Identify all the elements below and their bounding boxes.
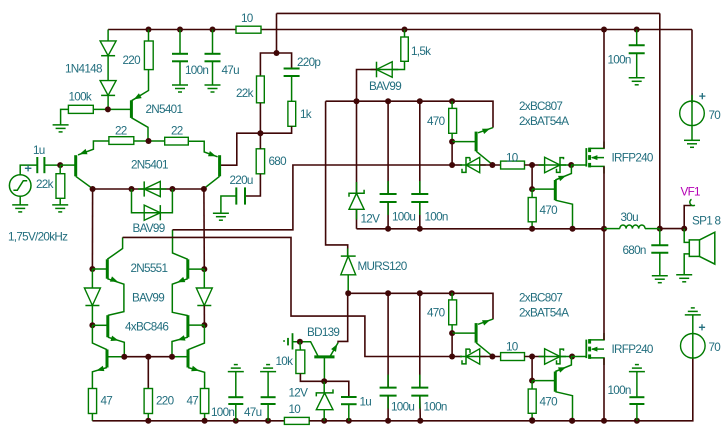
diode D1 1N4148 xyxy=(100,41,116,56)
svg-text:220: 220 xyxy=(156,395,175,408)
wire diode to Q8 node xyxy=(203,306,205,326)
wire 1u to 22k node xyxy=(44,164,60,166)
label 100n lower supply xyxy=(424,401,447,414)
label 30u xyxy=(621,211,639,224)
svg-text:BAV99: BAV99 xyxy=(369,80,401,93)
wire zener lower bottom lead xyxy=(323,410,325,421)
wire Q2 collector xyxy=(76,176,93,189)
svg-text:1k: 1k xyxy=(300,108,312,121)
label BAV99 center xyxy=(132,292,164,305)
capacitor C 100u lower xyxy=(380,388,397,396)
label 680 xyxy=(269,155,288,168)
capacitor C 100n bottom inverted ground xyxy=(228,365,244,372)
capacitor C 47u bottom inverted ground xyxy=(260,365,276,372)
node upper gate junction xyxy=(568,162,574,168)
svg-text:470: 470 xyxy=(427,307,446,320)
label 70 lower xyxy=(709,341,722,354)
ground under source xyxy=(12,205,28,212)
svg-text:10: 10 xyxy=(506,340,519,353)
node clamp diode left xyxy=(129,186,135,192)
svg-text:30u: 30u xyxy=(621,211,639,224)
svg-text:100u: 100u xyxy=(392,211,415,224)
label 470 lower b xyxy=(540,396,559,409)
label 2N5401 Q1 xyxy=(146,103,183,116)
wire zener lower top lead xyxy=(323,381,325,393)
resistor R 470 lower gate-emitter xyxy=(528,389,536,413)
wire upper diode to collector node xyxy=(480,164,501,166)
wire BC817 upper base xyxy=(532,188,555,190)
speaker SP1 xyxy=(689,232,715,264)
svg-text:100n: 100n xyxy=(185,64,208,77)
ground at 220u xyxy=(213,213,229,220)
polarity + at 1u xyxy=(25,165,32,171)
node rail 100n left xyxy=(233,418,239,424)
svg-text:70: 70 xyxy=(709,341,722,354)
wire lower base node to gate line xyxy=(451,333,453,356)
label 220p xyxy=(297,56,321,69)
svg-text:1N4148: 1N4148 xyxy=(65,63,102,76)
resistor R 100k xyxy=(68,105,93,113)
label 1u xyxy=(33,144,45,157)
svg-text:47u: 47u xyxy=(222,64,240,77)
transistor Q4 2N5551 base bar xyxy=(106,259,109,278)
wire lower mosfet gate lead xyxy=(571,356,586,358)
wire upper gate resistor right lead xyxy=(525,164,545,166)
label 1,75V/20kHz xyxy=(8,231,68,244)
wire Q2 emitter from 22 resistors xyxy=(78,141,109,155)
wire 100n upper top lead xyxy=(419,101,421,194)
wire 100n cap top lead xyxy=(179,30,181,54)
svg-text:47: 47 xyxy=(187,395,199,408)
wire 22k input to ground xyxy=(59,198,61,205)
node diode/100k/Q1-base junction xyxy=(105,106,111,112)
wire Q9 upper lead xyxy=(188,325,204,350)
wire Q8 base xyxy=(188,324,205,326)
wire 100n bottom upper lead xyxy=(235,372,237,398)
svg-text:470: 470 xyxy=(540,396,559,409)
wire left column to diode xyxy=(91,269,93,288)
capacitor C 100n upper supply xyxy=(411,194,428,202)
capacitor C 1u lower xyxy=(341,397,357,404)
wire Q4 emitter xyxy=(107,276,124,315)
node rail BC817 lower xyxy=(569,418,575,424)
svg-text:470: 470 xyxy=(427,115,446,128)
label 22k input xyxy=(36,178,54,191)
label 10 lower gate xyxy=(506,340,519,353)
wire 47u bottom lower lead xyxy=(267,404,269,421)
svg-text:2N5551: 2N5551 xyxy=(131,262,168,275)
node 220 tail junction xyxy=(145,354,151,360)
label 2N5401 pair xyxy=(131,159,168,172)
wire BC817 upper collector xyxy=(555,200,572,229)
diode BAT54A lower right xyxy=(539,349,566,364)
resistor R 10k xyxy=(296,350,305,374)
wire BD139 collector node xyxy=(293,342,318,356)
label 4xBC846 xyxy=(125,321,168,334)
svg-text:100n: 100n xyxy=(424,401,447,414)
wire 470b lower top lead xyxy=(531,357,533,381)
wire clamp row xyxy=(93,188,204,190)
wire zener upper top lead xyxy=(356,101,358,193)
wire feedback line drop to LC output xyxy=(659,13,661,228)
wire Q3 collector xyxy=(204,176,220,189)
resistor R 22k input xyxy=(56,174,65,199)
wire 470b upper top lead xyxy=(531,165,533,189)
ground under speaker xyxy=(676,275,692,282)
wire 47u bottom upper lead xyxy=(267,372,269,398)
node lower driver base junction xyxy=(449,330,455,336)
svg-text:22: 22 xyxy=(115,125,127,138)
wire 47 left to rail xyxy=(91,414,93,421)
wire BC807 lower collector xyxy=(476,343,492,357)
capacitor C 100n bottom xyxy=(228,397,243,404)
node drain rail tap xyxy=(601,27,607,33)
wire BC817 lower base xyxy=(532,380,555,382)
label 47 right xyxy=(187,395,199,408)
node Q8/Q9 junction xyxy=(169,354,175,360)
mosfet IRFP240 upper channel xyxy=(588,148,591,168)
capacitor C 1u input xyxy=(37,157,44,173)
svg-text:MURS120: MURS120 xyxy=(358,260,408,273)
wire V+ top rail xyxy=(108,29,692,31)
svg-text:10k: 10k xyxy=(276,355,294,368)
transistor Q3 2N5401 base bar xyxy=(218,155,221,176)
svg-text:VF1: VF1 xyxy=(681,186,701,199)
label 100k xyxy=(69,91,92,104)
wire upper gate line left segment xyxy=(452,164,462,166)
svg-text:1u: 1u xyxy=(360,396,372,409)
wire 100n top right upper lead xyxy=(636,30,638,46)
diode BAV99 clamp upper xyxy=(138,181,166,196)
node upper collector junction xyxy=(489,162,495,168)
ground under 100n xyxy=(172,85,188,92)
resistor R 10 xyxy=(236,26,261,33)
wire BD139 emitter xyxy=(330,343,338,356)
node Q6 base junction xyxy=(89,322,95,328)
wire Q3 emitter from 22 right xyxy=(188,141,217,157)
wire 100n upper bottom lead xyxy=(419,202,421,229)
resistor R 10 upper gate xyxy=(501,161,525,169)
mosfet IRFP240 lower channel xyxy=(588,339,591,359)
wire upper mosfet drain to V+ xyxy=(603,30,605,149)
node lower rail 100u tap xyxy=(385,290,391,296)
wire lower mosfet source to V- xyxy=(603,358,605,421)
capacitor C 100n top right xyxy=(629,45,645,53)
node comparator input junction xyxy=(274,50,280,56)
wire BC817 lower collector xyxy=(555,392,572,421)
resistor R 470 upper gate-emitter xyxy=(528,198,536,222)
probe VF1 xyxy=(684,199,695,228)
label BD139 xyxy=(307,326,339,339)
wire top feedback line (output to comparator) xyxy=(277,12,660,14)
source V1 waveform glyph xyxy=(13,181,27,191)
svg-text:22: 22 xyxy=(171,125,183,138)
node rail 47u left xyxy=(265,418,271,424)
wire ground to V- source xyxy=(692,315,694,359)
polarity + at V+ source xyxy=(699,93,705,99)
svg-text:1,75V/20kHz: 1,75V/20kHz xyxy=(8,231,68,244)
node rail mosfet source xyxy=(601,418,607,424)
wire 470 upper bottom lead xyxy=(451,133,453,141)
node upper 470b junction xyxy=(529,162,535,168)
wire between 1N4148 diodes xyxy=(107,56,109,81)
svg-text:12V: 12V xyxy=(361,213,381,226)
node upper rail 470 tap xyxy=(449,98,455,104)
wire lower gate supply rail xyxy=(348,293,493,319)
node lower rail 100n tap xyxy=(417,290,423,296)
diode BAT54A upper left xyxy=(460,157,486,172)
wire source to 1u cap xyxy=(20,165,37,175)
wire upper mosfet gate lead xyxy=(571,164,586,166)
resistor R 10 lower gate xyxy=(501,353,525,361)
node return 100u xyxy=(385,226,391,232)
wire upper BC807 base xyxy=(452,141,476,143)
node lower gate junction xyxy=(569,354,575,360)
label 100n bottom xyxy=(211,406,234,419)
wire LC to speaker xyxy=(660,228,684,230)
wire 10k bottom jog xyxy=(300,374,324,382)
svg-text:2xBC807: 2xBC807 xyxy=(519,292,562,305)
wire Q5 emitter xyxy=(172,277,188,316)
diode BAT54A lower left xyxy=(460,349,486,364)
node rail zener xyxy=(321,418,327,424)
node junction on V+ rail at 100n xyxy=(177,27,183,33)
svg-text:22k: 22k xyxy=(236,87,254,100)
wire lower gate line left segment xyxy=(452,356,462,358)
wire 220 tail lead xyxy=(147,357,149,389)
svg-text:220u: 220u xyxy=(230,174,253,187)
wire lower diode2 to gate xyxy=(560,356,571,358)
mosfet IRFP240 upper source lead xyxy=(590,166,604,173)
wire BD139 base down xyxy=(323,357,325,381)
transistor Q6 4xBC846 base bar xyxy=(106,315,109,337)
diode BAV99 left column xyxy=(84,288,100,306)
label 2xBAT54A upper xyxy=(519,115,569,128)
wire BC807 upper emitter xyxy=(478,128,493,134)
node clamp left xyxy=(90,186,96,192)
label 10k xyxy=(276,355,294,368)
wire output rail xyxy=(603,166,605,340)
svg-text:47: 47 xyxy=(101,395,113,408)
wire diode chain bottom lead xyxy=(107,95,109,109)
svg-text:IRFP240: IRFP240 xyxy=(612,343,654,356)
mosfet IRFP240 lower body diode arrow xyxy=(591,347,604,352)
wire speaker bottom terminal xyxy=(684,254,689,275)
label 1,5k xyxy=(411,45,431,58)
node rail 1u xyxy=(346,418,352,424)
node Q5 base junction xyxy=(201,266,207,272)
wire 1u lower bottom lead xyxy=(348,404,350,421)
node MURS120 junction xyxy=(345,290,351,296)
resistor R 470 upper driver xyxy=(449,108,457,133)
label 2N5551 xyxy=(131,262,168,275)
node lower collector junction xyxy=(489,354,495,360)
capacitor C 100n bottom right xyxy=(629,397,644,404)
wire 100k to diode node xyxy=(93,108,131,110)
wire 220 top lead xyxy=(148,30,150,42)
svg-text:680: 680 xyxy=(269,155,288,168)
wire upper gate supply rail xyxy=(326,101,493,127)
wire BD139 emitter to MURS node xyxy=(338,293,348,342)
label BAV99 clamp xyxy=(133,222,165,235)
ground under 100n top right xyxy=(629,78,645,85)
wire 22k input top lead xyxy=(59,165,61,174)
transistor Q1 2N5401 base bar xyxy=(130,100,133,118)
wire 1k bottom jog xyxy=(260,126,291,133)
wire BC817 lower emitter xyxy=(555,357,571,373)
wire upper diode2 to gate xyxy=(560,164,571,166)
node Q8 base junction xyxy=(201,322,207,328)
wire between 22 resistors xyxy=(134,140,165,142)
mosfet IRFP240 lower gate bar xyxy=(585,340,587,359)
resistor R 22 left xyxy=(109,137,134,145)
transistor BC817 upper base bar xyxy=(554,180,557,200)
node lower rail 470 tap xyxy=(449,290,455,296)
wire BC807 upper collector xyxy=(476,151,492,165)
svg-text:100u: 100u xyxy=(391,401,414,414)
node 100n top right tap xyxy=(634,27,640,33)
node clamp diode right xyxy=(169,186,175,192)
mosfet IRFP240 upper drain lead xyxy=(590,142,604,149)
wire 1,5k top lead xyxy=(404,30,406,38)
node upper rail zener tap xyxy=(354,98,360,104)
transistor Q8 4xBC846 base bar xyxy=(186,315,189,337)
ground under V+ source xyxy=(684,140,700,147)
svg-text:2xBAT54A: 2xBAT54A xyxy=(519,115,569,128)
node return 100n xyxy=(417,226,423,232)
label 100n xyxy=(185,64,208,77)
wire BC817 upper emitter xyxy=(555,165,571,181)
wire 470b lower lead xyxy=(531,381,533,389)
wire 100k left lead to ground xyxy=(61,109,69,125)
wire Q1 emitter from 220 xyxy=(132,70,149,101)
diode BAT54A upper right xyxy=(539,157,566,172)
node 1,5k top junction xyxy=(402,27,408,33)
wire Q3 base jog xyxy=(220,133,261,165)
wire 470b lower bottom lead xyxy=(531,413,533,420)
label 470 upper b xyxy=(540,204,559,217)
wire 100n lower top lead xyxy=(419,293,421,387)
svg-text:2xBAT54A: 2xBAT54A xyxy=(519,307,569,320)
label 220 xyxy=(123,54,142,67)
label SP1 8 xyxy=(692,215,721,228)
ground under 22k input xyxy=(52,205,68,212)
resistor R 470 lower driver xyxy=(449,300,457,325)
node rail 470 lower xyxy=(529,418,535,424)
label 2xBC807 lower xyxy=(519,292,562,305)
source V1 circle xyxy=(9,175,31,197)
zener D 12V lower xyxy=(316,389,333,409)
svg-text:BD139: BD139 xyxy=(307,326,339,339)
wire source to ground xyxy=(19,196,21,205)
node rail 100u lower xyxy=(385,418,391,424)
transistor Q7 4xBC846 base bar xyxy=(106,350,109,368)
label 47u bottom xyxy=(244,406,262,419)
resistor R 680 xyxy=(256,149,264,174)
label 47 left xyxy=(101,395,113,408)
svg-text:100n: 100n xyxy=(425,211,448,224)
label 1u lower xyxy=(360,396,372,409)
node 22/22/Q1 junction xyxy=(146,138,152,144)
label 220 tail xyxy=(156,395,175,408)
svg-text:IRFP240: IRFP240 xyxy=(612,152,654,165)
node BD139 10k junction xyxy=(297,339,303,345)
node 22k/1k/680 junction xyxy=(257,130,263,136)
mosfet IRFP240 upper body diode arrow xyxy=(591,155,604,160)
wire 100u lower top lead xyxy=(387,293,389,387)
node zener 12V lower junction xyxy=(321,378,327,384)
label 470 lower driver xyxy=(427,307,446,320)
label 22 left xyxy=(115,125,127,138)
label 680n xyxy=(623,244,646,257)
label IRFP240 lower xyxy=(612,343,654,356)
polarity + at V- source xyxy=(699,324,705,330)
node junction on V+ rail at 220 xyxy=(146,27,152,33)
wire 220 to rail xyxy=(147,414,149,421)
node lower 470b junction xyxy=(529,354,535,360)
label VF1 xyxy=(681,186,701,199)
wire MURS120 bottom lead xyxy=(347,275,349,294)
label 12V lower xyxy=(289,387,309,400)
wire Q7 collector xyxy=(107,356,124,358)
wire speaker top terminal xyxy=(684,229,689,243)
wire 47u to ground xyxy=(212,61,214,85)
wire emitter degeneration row xyxy=(124,356,172,358)
svg-text:BAV99: BAV99 xyxy=(133,222,165,235)
label MURS120 xyxy=(358,260,408,273)
wire upper base node to gate line xyxy=(451,142,453,165)
label 100n upper supply xyxy=(425,211,448,224)
transistor Q5 2N5551 base bar xyxy=(186,259,189,278)
wire lower gate resistor right lead xyxy=(525,356,545,358)
ground under 680n xyxy=(652,276,668,283)
source V+ 70 circle xyxy=(680,95,705,140)
label 10 xyxy=(241,12,254,25)
wire Q9 emitter xyxy=(188,366,205,389)
diode BAV99 right column xyxy=(196,288,212,306)
node BC817 lower collector xyxy=(569,418,575,424)
zener D 12V upper xyxy=(349,190,364,210)
capacitor C 680n xyxy=(651,245,668,252)
diode BAV99 top xyxy=(371,62,399,78)
label 22k xyxy=(236,87,254,100)
ground under 100k xyxy=(53,125,69,132)
svg-text:1u: 1u xyxy=(33,144,45,157)
svg-text:10: 10 xyxy=(506,151,519,164)
wire 680 to 220u xyxy=(245,174,260,196)
wire lower BC807 base xyxy=(452,332,476,334)
wire 100n bottom lower lead xyxy=(235,404,237,421)
capacitor C 47u xyxy=(205,54,221,62)
transistor Q2 2N5401 base bar xyxy=(74,155,77,176)
node 470b upper bottom xyxy=(529,226,535,232)
transistor BC807 lower base bar xyxy=(475,323,478,343)
label IRFP240 upper xyxy=(612,152,654,165)
svg-text:47u: 47u xyxy=(244,406,262,419)
wire Q6 emitter xyxy=(108,336,125,357)
wire 470b upper bottom lead xyxy=(531,222,533,229)
mosfet IRFP240 lower source lead xyxy=(590,358,604,365)
ground under 47u xyxy=(205,85,221,92)
wire clamp loop right xyxy=(160,189,172,213)
svg-text:22k: 22k xyxy=(36,178,54,191)
svg-text:2N5401: 2N5401 xyxy=(146,103,183,116)
node rail 220 xyxy=(145,418,151,424)
wire 100u upper top lead xyxy=(387,101,389,194)
wire Q2 base xyxy=(60,164,75,166)
diode D2 1N4148 xyxy=(100,81,116,96)
node speaker junction xyxy=(681,226,687,232)
